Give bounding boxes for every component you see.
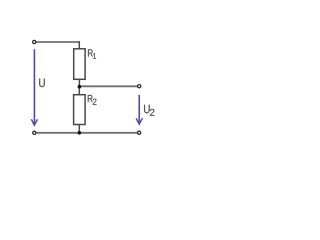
label U2 subscript 2 — [150, 109, 155, 116]
wire R2 bottom lead — [78, 124, 80, 132]
terminal bottom-left — [33, 131, 36, 134]
terminal middle-right — [138, 85, 141, 88]
node junction between R1 and R2 — [78, 85, 82, 89]
label U — [39, 79, 45, 88]
label R2 subscript 2 — [93, 99, 97, 105]
label R1 subscript 1 — [93, 53, 96, 58]
resistor R2 — [74, 95, 86, 125]
node junction bottom — [78, 131, 82, 135]
label U2 — [144, 105, 150, 114]
wire top horizontal — [36, 41, 79, 43]
arrow U — [33, 49, 35, 124]
label R2 — [88, 95, 93, 102]
wire R1 bottom lead — [78, 79, 80, 87]
wire middle horizontal — [79, 85, 137, 87]
terminal bottom-right — [138, 131, 141, 134]
wire bottom horizontal — [36, 132, 138, 134]
terminal top-left — [33, 40, 36, 43]
wire R2 top lead — [78, 86, 80, 94]
resistor R1 — [74, 49, 85, 80]
label R1 — [88, 49, 93, 56]
arrow U2 — [138, 95, 140, 124]
wire R1 top lead — [78, 41, 80, 49]
